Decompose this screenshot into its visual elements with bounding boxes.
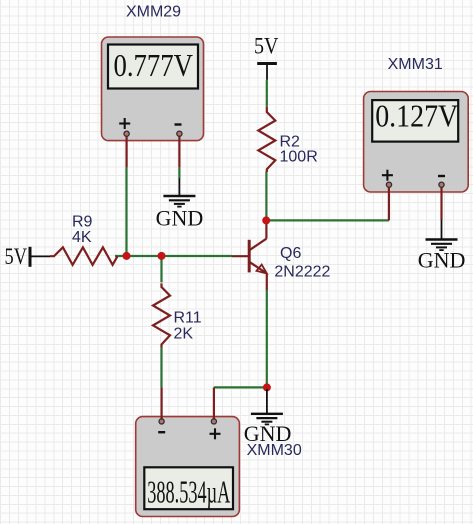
resistor R11: [153, 283, 170, 347]
wire: vertical green emitter down to bottom node: [266, 290, 268, 387]
label GND1: [156, 205, 204, 230]
svg-text:0.777V: 0.777V: [114, 49, 194, 84]
pin stub XMM29 minus: [178, 134, 180, 168]
junction node C (collector): [262, 216, 270, 224]
wire: horizontal green XMM30 plus pin to bottom node: [214, 386, 267, 388]
label R2: [280, 134, 301, 151]
label 2N2222: [274, 264, 330, 281]
terminal XMM29 plus: [124, 131, 129, 136]
wire: vertical green from R11 down to XMM30 minus pin: [160, 347, 162, 387]
transistor Q6: [232, 220, 267, 290]
label 2K: [174, 326, 194, 343]
svg-text:4K: 4K: [72, 229, 92, 246]
multimeter U XMM29 body: [102, 37, 204, 141]
wire net base: horizontal green wire y=256: [115, 255, 232, 257]
label Q6: [280, 245, 301, 262]
svg-text:R9: R9: [72, 214, 93, 231]
resistor R2: [258, 107, 275, 172]
svg-text:GND: GND: [156, 205, 204, 230]
label 100R: [280, 149, 318, 166]
svg-text:XMM29: XMM29: [126, 4, 181, 21]
pin stub XMM31 minus: [440, 185, 442, 220]
multimeter XMM31 body: [364, 92, 469, 193]
svg-text:XMM30: XMM30: [247, 442, 302, 459]
label 4K: [72, 229, 92, 246]
wire: vertical green from node to XMM29 plus pin: [125, 167, 127, 256]
svg-text:5V: 5V: [254, 34, 279, 59]
label GND2: [418, 248, 466, 273]
terminal XMM30 minus: [159, 419, 164, 424]
svg-text:Q6: Q6: [280, 245, 301, 262]
ground GND3 at bottom node: [251, 389, 283, 424]
display value 0.777V: [114, 49, 194, 84]
wire: green from 5V top down to R2: [266, 80, 268, 107]
pin stub XMM30 plus: [213, 387, 215, 421]
polarity mark XMM31 plus: [382, 170, 393, 181]
junction node D (emitter bottom): [263, 383, 271, 391]
svg-text:GND: GND: [418, 248, 466, 273]
wire: green from R2 down to collector node: [265, 172, 267, 221]
svg-text:0.127V: 0.127V: [375, 99, 458, 134]
display value 0.127V: [375, 99, 458, 134]
wire: vertical green from node down to R11: [160, 256, 162, 282]
polarity mark XMM30 minus: [158, 431, 165, 433]
svg-text:388.534µA: 388.534µA: [147, 475, 230, 510]
terminal XMM31 plus: [386, 182, 391, 187]
junction node A (base left): [123, 252, 131, 260]
terminal XMM30 plus: [211, 419, 216, 424]
svg-text:2N2222: 2N2222: [274, 264, 330, 281]
terminal XMM31 minus: [439, 182, 444, 187]
power source V2 5V top terminal: [257, 64, 277, 80]
pin stub XMM31 plus: [388, 185, 390, 221]
label 5V left: [5, 244, 28, 269]
label XMM31: [388, 56, 443, 73]
label 5V top: [254, 34, 279, 59]
polarity mark XMM29 plus: [119, 118, 130, 129]
wire: short green between XMM29 minus pin and ground pin: [178, 167, 180, 178]
resistor R9: [50, 247, 118, 265]
display value 388.534uA: [147, 475, 230, 510]
svg-text:2K: 2K: [174, 326, 194, 343]
polarity mark XMM31 minus: [438, 175, 445, 177]
svg-text:XMM31: XMM31: [388, 56, 443, 73]
junction node B (base right): [158, 252, 166, 260]
polarity mark XMM29 minus: [175, 123, 182, 125]
power source V1 5V left terminal: [30, 247, 50, 267]
label GND3: [244, 421, 292, 446]
terminal XMM29 minus: [177, 131, 182, 136]
multimeter XMM30 body: [136, 417, 240, 517]
polarity mark XMM30 plus: [210, 428, 221, 439]
label R11: [174, 310, 202, 327]
label R9: [72, 214, 93, 231]
label XMM30: [247, 442, 302, 459]
pin stub XMM29 plus: [125, 134, 127, 168]
ground GND1 under XMM29: [163, 178, 195, 207]
svg-text:100R: 100R: [280, 149, 318, 166]
wire: horizontal green collector node to XMM31 plus pin: [266, 219, 389, 221]
ground GND2 under XMM31: [426, 220, 458, 250]
svg-text:R11: R11: [174, 310, 202, 327]
label XMM29: [126, 4, 181, 21]
svg-text:5V: 5V: [5, 244, 28, 269]
pin stub XMM30 minus: [161, 387, 163, 421]
